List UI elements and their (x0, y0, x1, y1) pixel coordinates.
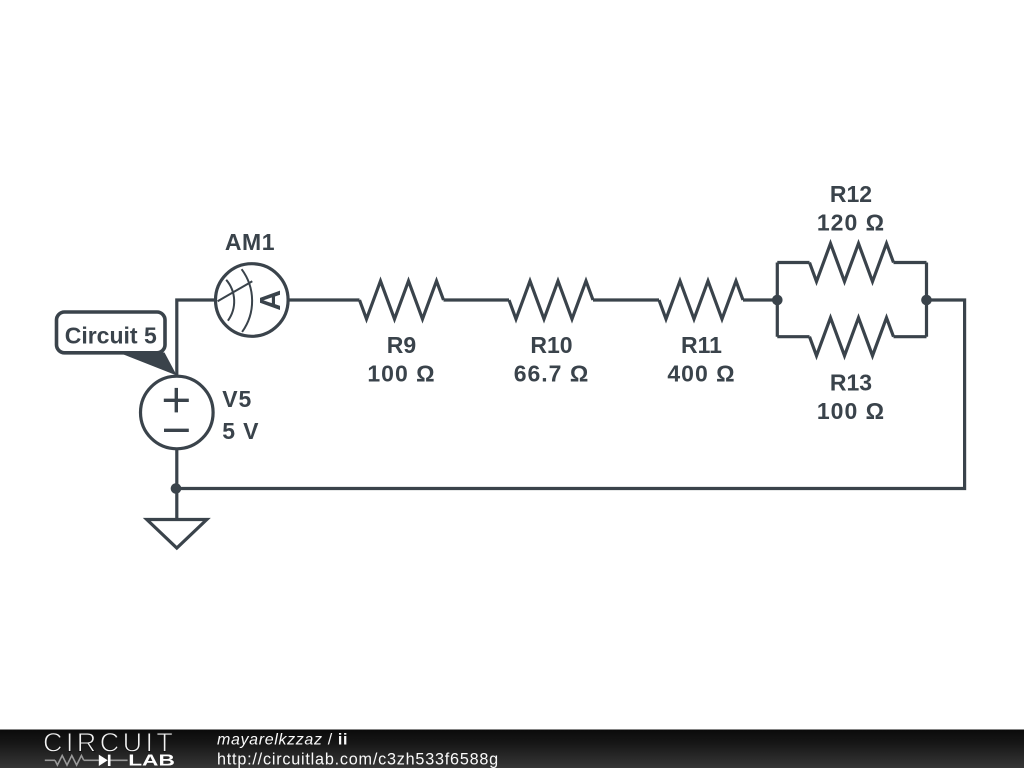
svg-text:66.7 Ω: 66.7 Ω (514, 360, 590, 386)
svg-text:R10: R10 (530, 332, 572, 358)
svg-text:100 Ω: 100 Ω (817, 398, 885, 424)
svg-text:400 Ω: 400 Ω (667, 360, 735, 386)
svg-text:A: A (255, 290, 287, 311)
svg-text:LAB: LAB (128, 752, 175, 768)
svg-text:V5: V5 (222, 386, 252, 412)
svg-text:Circuit 5: Circuit 5 (65, 323, 157, 349)
svg-text:R9: R9 (387, 332, 416, 358)
svg-text:120 Ω: 120 Ω (817, 210, 885, 236)
svg-text:R13: R13 (830, 370, 872, 396)
svg-text:mayarelkzzaz / ii: mayarelkzzaz / ii (217, 732, 348, 749)
svg-text:100 Ω: 100 Ω (367, 360, 435, 386)
svg-text:5 V: 5 V (222, 418, 259, 444)
svg-text:R11: R11 (681, 332, 722, 358)
svg-text:R12: R12 (830, 181, 872, 207)
svg-text:AM1: AM1 (225, 229, 275, 255)
svg-text:http://circuitlab.com/c3zh533f: http://circuitlab.com/c3zh533f6588g (217, 750, 499, 768)
